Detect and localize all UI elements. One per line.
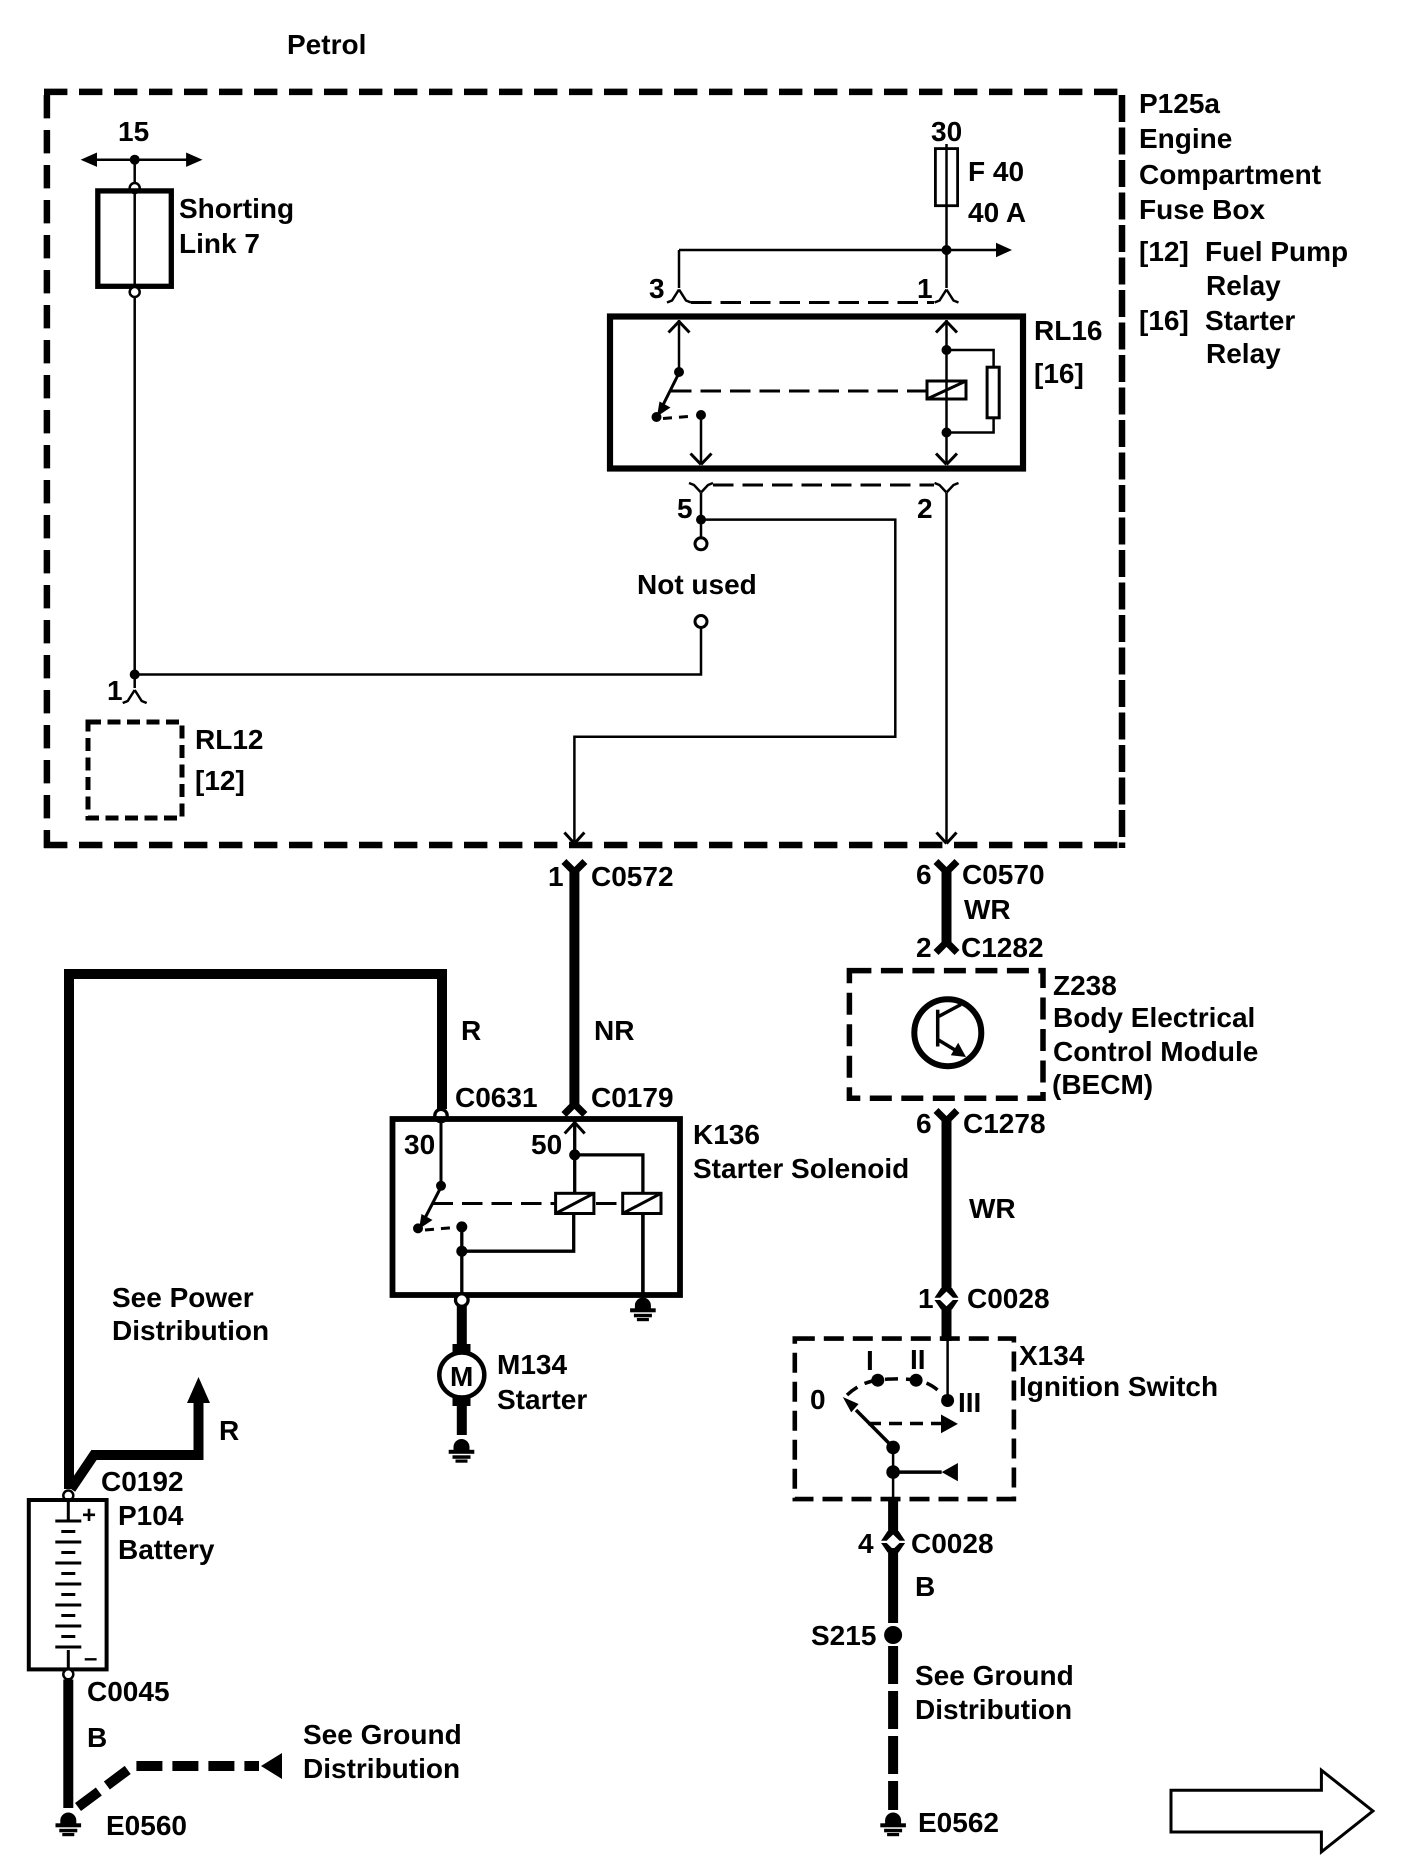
svg-text:B: B	[915, 1571, 935, 1602]
wire 50 feed	[573, 1121, 576, 1193]
not used circle lower	[695, 616, 707, 628]
output junction dot	[886, 1465, 900, 1479]
svg-text:6: 6	[916, 1108, 932, 1139]
svg-text:Starter: Starter	[497, 1384, 587, 1415]
wire 30 inside solenoid	[440, 1121, 443, 1186]
relay RL12 dashed box	[88, 722, 182, 818]
dashed contact link	[663, 416, 694, 419]
ground E0562	[880, 1813, 906, 1837]
svg-text:K136: K136	[693, 1119, 760, 1150]
arrow into border at C0570	[937, 833, 957, 844]
svg-text:C0192: C0192	[101, 1466, 184, 1497]
svg-text:50: 50	[531, 1129, 562, 1160]
svg-text:S215: S215	[811, 1620, 876, 1651]
svg-text:P125a: P125a	[1139, 88, 1220, 119]
svg-text:B: B	[87, 1722, 107, 1753]
svg-text:Engine: Engine	[1139, 123, 1232, 154]
svg-text:NR: NR	[594, 1015, 634, 1046]
dashed connector strip pin5 to pin2	[713, 484, 934, 487]
svg-text:WR: WR	[969, 1193, 1016, 1224]
not used circle upper	[695, 538, 707, 550]
svg-text:2: 2	[917, 493, 933, 524]
thick lead X134 to C0028 pin4	[888, 1499, 898, 1533]
svg-text:Relay: Relay	[1206, 338, 1281, 369]
svg-text:Shorting: Shorting	[179, 193, 294, 224]
dashed contact link	[425, 1228, 455, 1231]
svg-text:Link 7: Link 7	[179, 228, 260, 259]
dashed rotation direction arrow	[868, 1422, 944, 1426]
wire pin2 down to border	[945, 493, 948, 843]
junction dot	[456, 1246, 467, 1257]
wire bus down to pin 3	[678, 250, 681, 288]
thick battery ground lead	[63, 1680, 73, 1809]
svg-text:C0045: C0045	[87, 1676, 170, 1707]
svg-text:C0572: C0572	[591, 861, 674, 892]
arrow into border at C0572	[564, 833, 584, 844]
pin 1 chevron RL12	[123, 690, 147, 703]
rotor arm with arrowhead at 0	[856, 1410, 893, 1447]
svg-text:R: R	[461, 1015, 481, 1046]
svg-text:C0028: C0028	[911, 1528, 994, 1559]
inline connector C0028 pin1 male half	[935, 1288, 959, 1298]
svg-text:Compartment: Compartment	[1139, 159, 1321, 190]
output circle on box edge	[456, 1294, 469, 1307]
pin 1 chevron RL16	[935, 290, 959, 303]
battery negative terminal circle	[63, 1669, 73, 1679]
svg-text:III: III	[958, 1387, 981, 1418]
wire pin3 inside relay with up arrow	[678, 320, 681, 372]
svg-text:+: +	[82, 1502, 96, 1529]
hold-in winding actuator	[623, 1193, 661, 1213]
wire output node to pin 5 with down arrow	[700, 415, 703, 464]
svg-text:RL16: RL16	[1034, 315, 1102, 346]
BECM Z238 dashed box	[849, 971, 1043, 1099]
thick battery feed R wire	[69, 974, 442, 1489]
transistor emitter with arrow	[939, 1040, 956, 1050]
thick lead motor to ground	[457, 1406, 467, 1435]
connector circle C0631	[435, 1109, 447, 1121]
terminal circle top of shorting link	[130, 183, 140, 193]
junction dot fuse to bus	[942, 245, 952, 255]
svg-text:Fuel Pump: Fuel Pump	[1205, 236, 1348, 267]
relay common pivot dot	[674, 367, 684, 377]
junction dot 50	[569, 1149, 580, 1160]
svg-text:Body Electrical: Body Electrical	[1053, 1002, 1255, 1033]
svg-text:C0570: C0570	[962, 859, 1045, 890]
dashed rotation arc 0-I-II-III	[847, 1379, 946, 1399]
svg-text:See Power: See Power	[112, 1282, 254, 1313]
wire pin5 run to C0572	[574, 520, 895, 843]
terminal circle bottom of shorting link	[130, 287, 140, 297]
relay output node dot	[696, 410, 706, 420]
wire junction to not-used stub	[135, 628, 701, 675]
wire pin5 to junction	[700, 493, 703, 520]
ignition switch X134 dashed box	[795, 1339, 1014, 1500]
svg-text:0: 0	[810, 1384, 826, 1415]
relay actuator symbol	[927, 381, 966, 399]
wiper contact stub	[893, 1470, 942, 1474]
svg-text:M134: M134	[497, 1349, 567, 1380]
big continuation arrow	[1171, 1770, 1373, 1852]
svg-text:–: –	[84, 1645, 97, 1672]
contact dot II	[910, 1374, 923, 1387]
svg-text:4: 4	[858, 1528, 874, 1559]
wire shorting link down to RL12	[133, 297, 136, 675]
svg-text:RL12: RL12	[195, 724, 263, 755]
transistor base bar	[936, 1010, 940, 1047]
svg-text:P104: P104	[118, 1500, 184, 1531]
dashed see-ground lead left	[78, 1766, 259, 1807]
wire junction to not-used upper circle	[700, 520, 703, 538]
svg-text:Not used: Not used	[637, 569, 757, 600]
wire into III contact	[946, 1341, 949, 1396]
svg-text:R: R	[219, 1415, 239, 1446]
junction node above RL12	[130, 670, 140, 680]
dashed actuator link	[433, 1202, 556, 1205]
svg-text:Battery: Battery	[118, 1534, 215, 1565]
starter solenoid K136 box	[393, 1119, 681, 1295]
connector C1278 thick lead down to C0028	[936, 1111, 957, 1120]
svg-text:E0562: E0562	[918, 1807, 999, 1838]
solenoid contact dot (arm tip)	[413, 1223, 423, 1233]
relay switch arm	[663, 373, 679, 405]
rotor pivot dot	[886, 1441, 900, 1455]
transistor collector	[939, 1005, 962, 1017]
wire through shorting link	[133, 193, 136, 287]
inline connector C0028 pin4	[881, 1531, 905, 1541]
svg-text:Z238: Z238	[1053, 970, 1117, 1001]
coil bottom junction dot	[942, 428, 952, 438]
ground E0560	[56, 1813, 82, 1837]
wire to hold-in winding	[575, 1155, 643, 1193]
svg-text:See Ground: See Ground	[303, 1719, 462, 1750]
pull-in winding actuator	[556, 1193, 594, 1213]
wire junction down to RL12 pin 1	[133, 675, 136, 689]
svg-text:X134: X134	[1019, 1340, 1085, 1371]
battery P104	[63, 1491, 73, 1501]
svg-text:1: 1	[548, 861, 564, 892]
relay RL16 box	[610, 317, 1023, 469]
svg-text:3: 3	[649, 273, 665, 304]
relay contact dot (arm tip)	[652, 412, 662, 422]
svg-text:2: 2	[916, 932, 932, 963]
inline connector C0028 lower half and lead into X134	[935, 1300, 959, 1310]
svg-text:I: I	[866, 1345, 874, 1376]
dashed actuator link line	[671, 390, 927, 393]
svg-text:C0179: C0179	[591, 1082, 674, 1113]
solenoid pivot dot	[436, 1181, 446, 1191]
dashed ground lead	[888, 1646, 898, 1810]
svg-text:(BECM): (BECM)	[1052, 1069, 1153, 1100]
svg-text:Distribution: Distribution	[303, 1753, 460, 1784]
fuse box P125a dashed boundary	[44, 92, 1125, 848]
down arrow to pin 2	[936, 454, 957, 465]
dashed connector strip pin3 to pin1	[691, 301, 934, 304]
svg-text:Starter: Starter	[1205, 305, 1295, 336]
shorting link 7 box	[98, 191, 172, 286]
svg-text:15: 15	[118, 116, 149, 147]
R branch arrow to power distribution	[71, 1403, 199, 1489]
junction dot on 15 bus	[130, 155, 140, 165]
svg-text:C0028: C0028	[967, 1283, 1050, 1314]
svg-text:Relay: Relay	[1206, 270, 1281, 301]
ground solenoid	[630, 1298, 656, 1322]
BECM transistor symbol circle	[914, 999, 981, 1066]
junction dot pin5	[696, 515, 706, 525]
solenoid switch arm	[425, 1187, 441, 1218]
thick lead to S215	[888, 1548, 898, 1623]
svg-text:Distribution: Distribution	[112, 1315, 269, 1346]
ground starter motor	[449, 1439, 475, 1463]
svg-text:[12]: [12]	[195, 765, 245, 796]
solenoid moving contact dot	[456, 1221, 467, 1232]
svg-text:30: 30	[404, 1129, 435, 1160]
connector C0570/C1282 thick link	[936, 862, 957, 953]
svg-text:Control Module: Control Module	[1053, 1036, 1258, 1067]
pin 2 chevron	[935, 483, 959, 493]
splice S215 dot	[884, 1626, 902, 1644]
pin 3 chevron	[667, 290, 691, 303]
svg-text:Distribution: Distribution	[915, 1694, 1072, 1725]
battery plates	[55, 1502, 81, 1668]
wire fuse down to pin 1	[945, 250, 948, 288]
wire pivot to output dot	[892, 1447, 895, 1472]
svg-text:C1278: C1278	[963, 1108, 1046, 1139]
svg-text:F 40: F 40	[968, 156, 1024, 187]
svg-text:Petrol: Petrol	[287, 29, 366, 60]
fuse F40	[945, 144, 948, 250]
svg-text:Starter Solenoid: Starter Solenoid	[693, 1153, 909, 1184]
svg-text:E0560: E0560	[106, 1810, 187, 1841]
svg-text:C1282: C1282	[961, 932, 1044, 963]
svg-text:Fuse Box: Fuse Box	[1139, 194, 1265, 225]
thick lead to starter motor	[457, 1306, 467, 1344]
wire output to box bottom	[892, 1472, 895, 1497]
connector C0179 up arrow into K136	[565, 1123, 585, 1134]
svg-text:C0631: C0631	[455, 1082, 538, 1113]
wire hold-in winding to ground	[641, 1214, 645, 1298]
svg-text:M: M	[450, 1361, 473, 1392]
svg-text:See Ground: See Ground	[915, 1660, 1074, 1691]
svg-text:Ignition Switch: Ignition Switch	[1019, 1371, 1218, 1402]
svg-text:5: 5	[677, 493, 693, 524]
svg-text:II: II	[910, 1344, 926, 1375]
svg-text:WR: WR	[964, 894, 1011, 925]
relay coil	[947, 350, 994, 433]
svg-text:30: 30	[931, 116, 962, 147]
wire terminal-15 bus with arrows	[81, 153, 203, 167]
coil top junction dot	[942, 345, 952, 355]
svg-text:40 A: 40 A	[968, 197, 1026, 228]
wire contact to junction	[460, 1227, 463, 1251]
dashed link between windings	[596, 1202, 623, 1205]
wire junction to pull-in winding	[462, 1214, 574, 1252]
svg-text:1: 1	[918, 1283, 934, 1314]
svg-text:6: 6	[916, 859, 932, 890]
svg-text:1: 1	[917, 273, 933, 304]
wire fused feed bus with arrow	[679, 249, 997, 252]
connector C0572 thick lead down to C0179	[564, 862, 585, 1115]
contact dot III	[941, 1394, 954, 1407]
wire junction to motor output	[460, 1251, 463, 1295]
svg-text:1: 1	[107, 675, 123, 706]
wire pin1 inside relay with up arrow	[945, 320, 948, 464]
svg-text:[16]: [16]	[1034, 358, 1084, 389]
svg-text:[12]: [12]	[1139, 236, 1189, 267]
contact dot I	[871, 1374, 884, 1387]
svg-text:[16]: [16]	[1139, 305, 1189, 336]
starter motor M134	[453, 1344, 471, 1353]
wire from 15 bus to shorting link	[133, 160, 136, 183]
pin 5 chevron	[689, 483, 713, 493]
